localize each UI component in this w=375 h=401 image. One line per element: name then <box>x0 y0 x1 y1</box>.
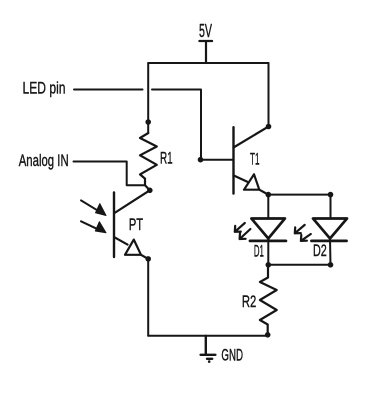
LED D1 anode wire <box>267 195 269 219</box>
LED D1 cathode wire <box>267 239 269 265</box>
LED D2 cathode bar <box>312 239 347 242</box>
5V terminal <box>199 41 212 63</box>
wire LED bottom rail <box>268 264 330 266</box>
resistor R2 <box>260 265 277 335</box>
transistor T1 collector <box>234 127 269 148</box>
ground symbol <box>201 336 216 359</box>
svg-text:LED pin: LED pin <box>23 79 66 98</box>
wire LED pin left segment <box>74 89 143 91</box>
svg-text:D1: D1 <box>254 242 264 261</box>
resistor R1 <box>140 133 157 190</box>
svg-text:D2: D2 <box>313 241 327 260</box>
LED D1 cathode bar <box>250 239 286 242</box>
wire Analog IN <box>74 162 146 186</box>
PT light arrow 2 <box>81 221 106 232</box>
transistor T1 emitter <box>234 175 248 181</box>
LED D1 triangle <box>251 219 285 239</box>
transistor PT body bar <box>113 192 115 257</box>
transistor PT emitter arrow triangle <box>125 240 141 255</box>
wire PT emitter lead <box>141 255 148 259</box>
LED D2 triangle <box>313 219 347 239</box>
node D1 bottom <box>266 262 272 268</box>
svg-text:5V: 5V <box>199 21 212 41</box>
ground dot <box>208 360 211 363</box>
wire left drop to R1 <box>147 63 149 133</box>
wire top rail <box>148 62 268 64</box>
D2 light arrow 1 <box>295 225 305 233</box>
node D2 top <box>328 192 334 198</box>
wire PT collector lead <box>115 190 150 213</box>
D1 light arrow 2 <box>240 229 251 239</box>
svg-text:PT: PT <box>129 215 143 234</box>
wire T1 emitter lead <box>259 190 268 195</box>
svg-text:T1: T1 <box>250 150 260 169</box>
svg-text:R2: R2 <box>242 292 256 311</box>
transistor T1 base bar <box>232 127 234 193</box>
node junction R1/PT/Analog <box>147 188 153 194</box>
transistor PT emitter <box>114 237 127 244</box>
wire LED pin to T1 base (hop over R1 wire) <box>152 90 201 160</box>
LED D2 anode wire <box>330 195 332 219</box>
node R2 bottom <box>265 332 271 338</box>
node dot on R1 wire <box>145 119 151 125</box>
wire bottom ground rail <box>148 335 268 337</box>
svg-text:Analog IN: Analog IN <box>19 151 69 170</box>
wire emitter rail to D2 <box>268 194 330 196</box>
wire right drop to T1 collector <box>268 63 270 127</box>
wire PT emitter to ground rail <box>147 259 149 336</box>
node T1 collector <box>266 124 272 130</box>
svg-text:R1: R1 <box>160 149 173 168</box>
wire to T1 base <box>201 159 234 161</box>
D2 light arrow 2 <box>301 234 311 241</box>
LED D2 cathode wire <box>329 239 332 265</box>
D1 light arrow 1 <box>235 223 245 232</box>
transistor T1 emitter arrow triangle <box>244 174 259 189</box>
node PT emitter <box>145 256 151 262</box>
node T1 emitter <box>266 192 272 198</box>
node dot LED pin corner <box>198 157 204 163</box>
node D2 bottom <box>328 262 334 268</box>
svg-text:GND: GND <box>221 346 243 365</box>
PT light arrow 1 <box>81 200 106 215</box>
